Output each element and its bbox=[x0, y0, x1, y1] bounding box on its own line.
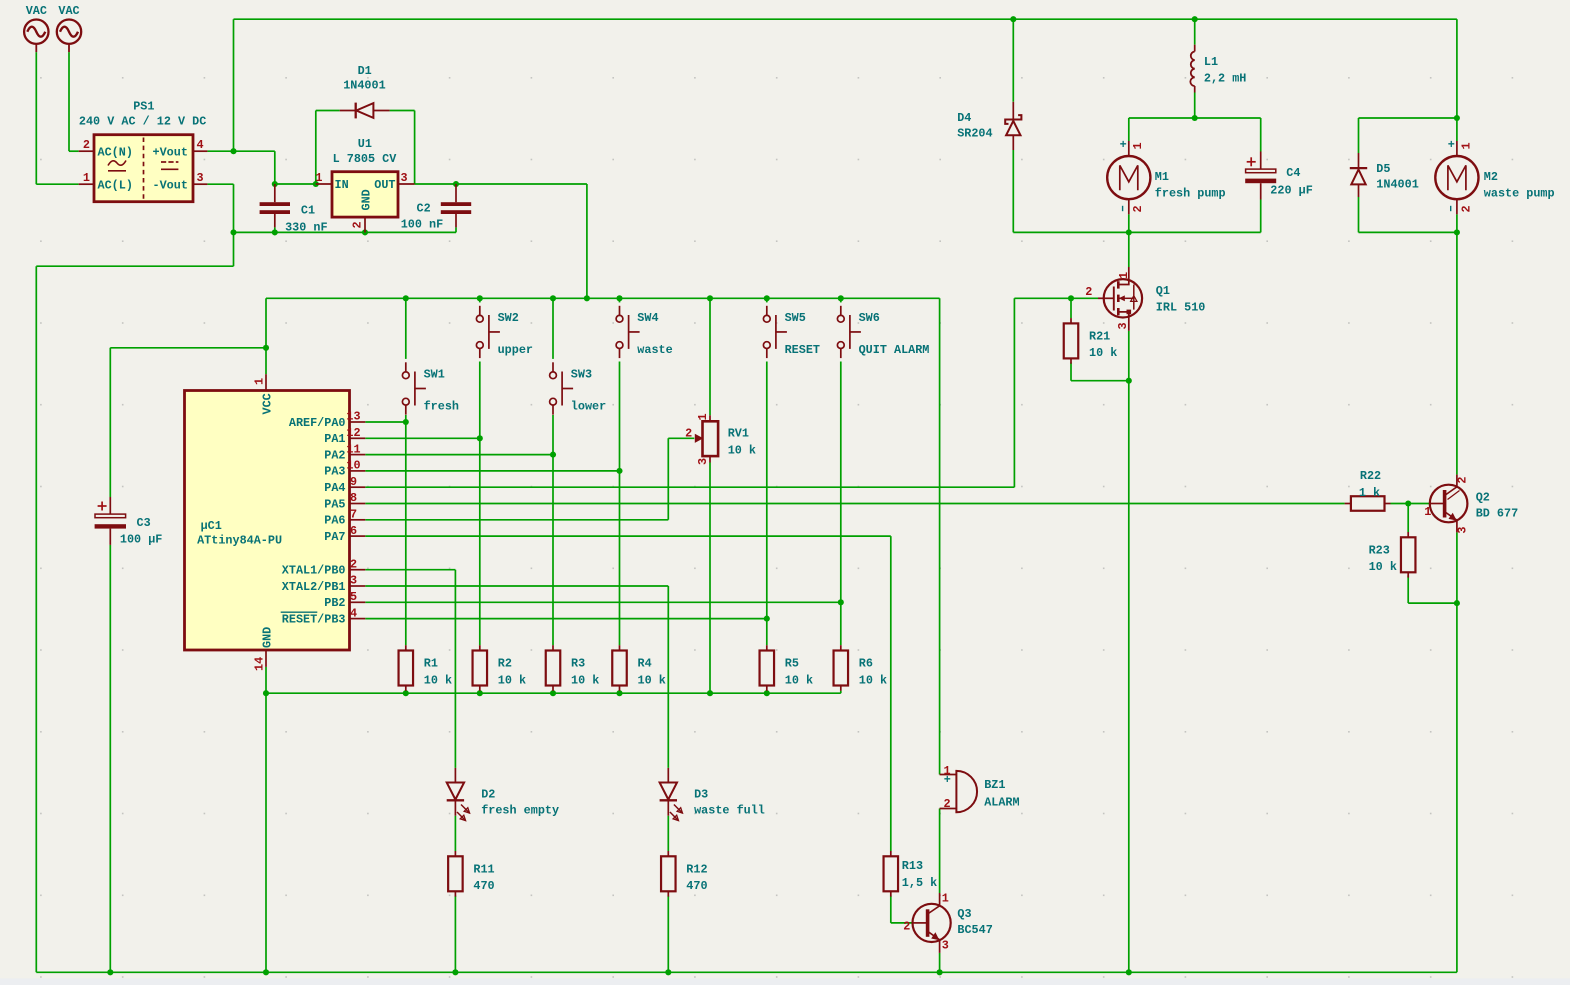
junction bottom Q3 bbox=[937, 969, 943, 975]
svg-text:220 µF: 220 µF bbox=[1270, 184, 1312, 198]
junction M2 top bbox=[1454, 115, 1460, 121]
wire Q3 emitter lead bbox=[939, 953, 941, 972]
svg-text:R21: R21 bbox=[1089, 329, 1110, 343]
wire PA6 row bbox=[365, 519, 668, 521]
junction gnd rail R2 bbox=[477, 690, 483, 696]
wire +12V riser to top rail bbox=[233, 19, 235, 151]
svg-text:100 µF: 100 µF bbox=[120, 533, 162, 547]
resistor R13 1.5k bbox=[884, 851, 938, 897]
junction VCC link bbox=[263, 345, 269, 351]
wire +12V drop to C1 bbox=[274, 151, 276, 184]
wire PA4 riser to Q1 gate bbox=[1013, 298, 1015, 487]
svg-text:fresh: fresh bbox=[424, 400, 459, 414]
junction bottom C3 bbox=[107, 969, 113, 975]
junction bottom R12 bbox=[665, 969, 671, 975]
wire bottom ground rail bbox=[36, 971, 1457, 973]
wire D5 top lead bbox=[1358, 118, 1360, 153]
svg-text:PS1: PS1 bbox=[133, 99, 154, 113]
svg-text:470: 470 bbox=[686, 879, 707, 893]
capacitor C2 100nF bbox=[401, 184, 471, 232]
svg-text:+: + bbox=[944, 773, 951, 787]
wire SW2 bottom lead bbox=[479, 362, 481, 439]
wire R23 to emitter link bbox=[1408, 602, 1457, 604]
wire R2 bottom lead bbox=[479, 691, 481, 694]
svg-text:M1: M1 bbox=[1155, 170, 1169, 184]
svg-text:3: 3 bbox=[942, 938, 949, 952]
svg-text:3: 3 bbox=[1116, 322, 1130, 329]
wire Q2 emitter lead bbox=[1456, 532, 1458, 972]
svg-text:4: 4 bbox=[197, 138, 204, 152]
junction Q2 base R22 bbox=[1405, 500, 1411, 506]
svg-text:QUIT ALARM: QUIT ALARM bbox=[859, 343, 930, 357]
wire PA7 drop to R13 bbox=[890, 536, 892, 851]
wire C4 bottom lead bbox=[1260, 200, 1262, 233]
wire VAC1 to PS1 AC(L) horizontal bbox=[36, 183, 78, 185]
wire ground drop left bbox=[233, 232, 235, 266]
svg-text:R1: R1 bbox=[424, 657, 438, 671]
wire SW5 to R5 bbox=[766, 619, 768, 646]
svg-text:VAC: VAC bbox=[26, 4, 47, 18]
svg-text:10 k: 10 k bbox=[638, 673, 666, 687]
svg-text:10 k: 10 k bbox=[424, 673, 452, 687]
wire PB1 row bbox=[365, 585, 668, 587]
wire M2 bottom lead bbox=[1456, 214, 1458, 232]
power supply PS1 240V AC to 12V DC bbox=[79, 99, 208, 201]
wire R12 bottom lead bbox=[667, 896, 669, 973]
junction bus SW5 bbox=[764, 295, 770, 301]
LED D2 fresh empty bbox=[447, 768, 559, 821]
svg-text:+Vout: +Vout bbox=[153, 146, 188, 160]
junction gnd rail RV1 bbox=[707, 690, 713, 696]
junction L1 M1 rail bbox=[1192, 115, 1198, 121]
svg-text:waste pump: waste pump bbox=[1484, 187, 1555, 201]
potentiometer RV1 10k bbox=[685, 413, 756, 465]
svg-text:OUT: OUT bbox=[374, 178, 395, 192]
junction gnd rail uC bbox=[263, 690, 269, 696]
wire SW3 top lead bbox=[552, 298, 554, 359]
svg-text:3: 3 bbox=[350, 574, 357, 588]
svg-text:C4: C4 bbox=[1286, 166, 1300, 180]
svg-text:AC(L): AC(L) bbox=[98, 179, 133, 193]
wire R3 bottom lead bbox=[552, 691, 554, 694]
svg-text:L 7805 CV: L 7805 CV bbox=[333, 152, 398, 166]
wire Q1 source lead bbox=[1128, 331, 1130, 973]
buzzer BZ1 ALARM bbox=[940, 764, 1020, 812]
wire RV1 bottom lead bbox=[709, 463, 711, 694]
wire R11 bottom lead bbox=[454, 896, 456, 973]
wire +12V from PS1 pin4 bbox=[207, 150, 274, 152]
junction bottom uC GND bbox=[263, 969, 269, 975]
wire C3 top lead bbox=[109, 348, 111, 497]
svg-text:1: 1 bbox=[1117, 272, 1131, 279]
wire VAC2 to PS1 AC(N) horizontal bbox=[69, 150, 79, 152]
svg-text:D4: D4 bbox=[957, 111, 971, 125]
svg-text:10 k: 10 k bbox=[785, 673, 813, 687]
resistor R4 10k bbox=[612, 645, 666, 691]
wire uC1 VCC drop bbox=[265, 348, 267, 374]
svg-text:SW3: SW3 bbox=[571, 367, 592, 381]
svg-text:U1: U1 bbox=[358, 137, 372, 151]
wire PB0 row bbox=[365, 569, 455, 571]
wire Q1 drain lead bbox=[1128, 232, 1130, 267]
svg-text:1: 1 bbox=[252, 378, 266, 385]
wire SW6 bottom lead bbox=[840, 362, 842, 603]
junction PA0 SW1 bbox=[403, 419, 409, 425]
svg-text:SW6: SW6 bbox=[859, 311, 880, 325]
junction PA1 SW2 bbox=[477, 435, 483, 441]
wire +5V drop to BZ1 bbox=[939, 298, 941, 774]
svg-text:BZ1: BZ1 bbox=[984, 778, 1005, 792]
motor M1 fresh pump bbox=[1107, 138, 1225, 214]
svg-text:10 k: 10 k bbox=[571, 673, 599, 687]
svg-text:3: 3 bbox=[197, 171, 204, 185]
svg-text:D1: D1 bbox=[358, 64, 372, 78]
svg-text:AC(N): AC(N) bbox=[98, 146, 133, 160]
svg-text:waste: waste bbox=[637, 343, 672, 357]
LED D3 waste full bbox=[660, 768, 765, 821]
junction PB2 SW6 bbox=[838, 599, 844, 605]
svg-text:13: 13 bbox=[346, 410, 360, 424]
capacitor C1 330nF bbox=[260, 184, 328, 235]
svg-text:2: 2 bbox=[83, 138, 90, 152]
svg-text:GND: GND bbox=[360, 189, 374, 210]
wire D1 left lead bbox=[316, 110, 340, 112]
svg-text:10 k: 10 k bbox=[859, 673, 887, 687]
svg-text:D2: D2 bbox=[481, 787, 495, 801]
svg-text:RESET/PB3: RESET/PB3 bbox=[282, 612, 346, 626]
wire PA6 riser to RV1 wiper bbox=[667, 438, 669, 520]
wire C1 C2 ground rail bbox=[234, 231, 457, 233]
junction C2 top bbox=[453, 181, 459, 187]
junction PA3 SW4 bbox=[616, 468, 622, 474]
svg-text:12: 12 bbox=[346, 426, 360, 440]
junction Q1 source R21 bbox=[1126, 378, 1132, 384]
svg-text:1: 1 bbox=[83, 171, 90, 185]
junction +12V pin4 bbox=[230, 148, 236, 154]
wire +5V bus to VCC link bbox=[265, 298, 267, 348]
wire SW6 top lead bbox=[840, 298, 842, 302]
wire R1 top lead bbox=[405, 422, 407, 645]
svg-text:VCC: VCC bbox=[261, 393, 275, 414]
wire PA7 row bbox=[365, 535, 891, 537]
resistor R21 10k bbox=[1064, 318, 1118, 364]
wire R21 top lead bbox=[1070, 298, 1072, 318]
svg-text:2: 2 bbox=[944, 797, 951, 811]
svg-text:GND: GND bbox=[261, 627, 275, 648]
svg-text:R11: R11 bbox=[473, 862, 494, 876]
junction bottom Q1 source bbox=[1126, 969, 1132, 975]
svg-text:ATtiny84A-PU: ATtiny84A-PU bbox=[197, 534, 282, 548]
wire M2 top rail bbox=[1359, 117, 1457, 119]
svg-text:1: 1 bbox=[1424, 505, 1431, 519]
svg-text:+: + bbox=[1120, 138, 1127, 152]
transistor Q2 BD677 darlington bbox=[1424, 475, 1518, 534]
svg-text:10: 10 bbox=[346, 459, 360, 473]
svg-text:3: 3 bbox=[696, 458, 710, 465]
junction M1 bottom bbox=[1126, 229, 1132, 235]
wire SW4 top lead bbox=[619, 298, 621, 302]
wire SW3 bottom lead bbox=[552, 415, 554, 455]
wire SW1 top lead bbox=[405, 298, 407, 359]
svg-text:PA4: PA4 bbox=[324, 481, 345, 495]
svg-text:1: 1 bbox=[1459, 142, 1473, 149]
svg-text:2: 2 bbox=[1455, 477, 1469, 484]
microcontroller uC1 ATtiny84A-PU bbox=[185, 374, 366, 671]
wire R23 bottom lead bbox=[1407, 575, 1409, 603]
svg-text:R13: R13 bbox=[902, 859, 923, 873]
svg-text:XTAL2/PB1: XTAL2/PB1 bbox=[282, 580, 346, 594]
svg-text:fresh empty: fresh empty bbox=[481, 804, 559, 818]
svg-text:1: 1 bbox=[1131, 142, 1145, 149]
svg-text:6: 6 bbox=[350, 524, 357, 538]
wire R4 bottom lead bbox=[619, 691, 621, 694]
wire PB1 drop to D3 bbox=[667, 586, 669, 768]
wire D4 bottom lead bbox=[1012, 150, 1014, 232]
svg-text:lower: lower bbox=[571, 400, 606, 414]
wire D4 top lead bbox=[1012, 19, 1014, 102]
svg-text:7: 7 bbox=[350, 508, 357, 522]
wire SW1 bottom lead bbox=[405, 415, 407, 422]
wire D3 to R12 bbox=[667, 816, 669, 851]
junction C1 bottom bbox=[272, 229, 278, 235]
wire SW5 top lead bbox=[766, 298, 768, 302]
svg-text:240 V AC / 12 V DC: 240 V AC / 12 V DC bbox=[79, 115, 206, 129]
svg-text:C2: C2 bbox=[417, 202, 431, 216]
wire PA0 row bbox=[365, 421, 406, 423]
svg-text:R6: R6 bbox=[859, 657, 873, 671]
svg-text:PB2: PB2 bbox=[324, 596, 345, 610]
svg-text:Q3: Q3 bbox=[957, 907, 971, 921]
svg-text:470: 470 bbox=[473, 879, 494, 893]
resistor R22 1k bbox=[1345, 469, 1391, 511]
wire U1 OUT to bus riser bbox=[415, 183, 587, 185]
transistor Q3 BC547 npn bbox=[903, 892, 993, 953]
svg-text:2: 2 bbox=[685, 426, 692, 440]
junction gnd pin3 bbox=[230, 229, 236, 235]
switch SW5 RESET bbox=[763, 306, 820, 358]
svg-text:Q1: Q1 bbox=[1156, 284, 1170, 298]
diode D5 1N4001 bbox=[1350, 153, 1419, 197]
junction bus SW1 bbox=[403, 295, 409, 301]
wire R21 to source link bbox=[1071, 380, 1129, 382]
resistor R12 470 bbox=[661, 851, 708, 897]
junction C1 top bbox=[272, 181, 278, 187]
wire Q1 gate wire bbox=[1014, 297, 1098, 299]
wire D1 right riser bbox=[414, 111, 416, 185]
wire C4 top lead bbox=[1260, 118, 1262, 152]
junction M2 bottom bbox=[1454, 229, 1460, 235]
svg-text:Q2: Q2 bbox=[1476, 491, 1490, 505]
wire SW6 to R6 bbox=[840, 602, 842, 645]
svg-text:RESET: RESET bbox=[785, 343, 820, 357]
wire C3 bottom lead bbox=[109, 545, 111, 972]
resistor R5 10k bbox=[760, 645, 814, 691]
wire M1 top rail bbox=[1129, 117, 1261, 119]
svg-text:SW4: SW4 bbox=[637, 311, 658, 325]
wire BZ1 to Q3 collector bbox=[939, 809, 941, 894]
wire R4 top lead bbox=[619, 471, 621, 645]
inductor L1 2.2mH bbox=[1190, 45, 1246, 93]
wire R13 to Q3 base vert bbox=[890, 896, 892, 923]
wire left ground drop bbox=[35, 266, 37, 972]
wire uC1 GND drop to bottom bbox=[265, 693, 267, 972]
wire D1 right lead bbox=[390, 110, 415, 112]
wire R2 top lead bbox=[479, 438, 481, 645]
svg-text:2: 2 bbox=[1131, 205, 1145, 212]
wire PA5 row to R22 bbox=[365, 503, 1344, 505]
wire +12V top rail bbox=[234, 18, 1457, 20]
page margin strip bbox=[0, 978, 1570, 985]
svg-text:9: 9 bbox=[350, 475, 357, 489]
wire R1 bottom lead bbox=[405, 691, 407, 694]
svg-text:2: 2 bbox=[1085, 285, 1092, 299]
wire D1 left riser bbox=[315, 111, 317, 185]
wire R21 bottom lead bbox=[1070, 363, 1072, 381]
junction bus SW3 bbox=[550, 295, 556, 301]
svg-text:waste full: waste full bbox=[694, 804, 765, 818]
wire VAC2 to PS1 AC(N) vertical bbox=[68, 52, 70, 151]
wire ground run left bbox=[36, 265, 233, 267]
svg-text:SW5: SW5 bbox=[785, 311, 806, 325]
wire R13 to Q3 base horiz bbox=[891, 922, 912, 924]
svg-text:1: 1 bbox=[315, 171, 322, 185]
resistor R1 10k bbox=[399, 645, 453, 691]
junction Q1 gate R21 bbox=[1068, 295, 1074, 301]
switch SW4 waste bbox=[616, 306, 673, 358]
wire +12V to U1 IN bbox=[275, 183, 316, 185]
wire SW5 bottom lead bbox=[766, 362, 768, 619]
svg-text:1,5 k: 1,5 k bbox=[902, 876, 937, 890]
junction D1 anode bbox=[313, 181, 319, 187]
wire D2 to R11 bbox=[454, 816, 456, 851]
svg-text:VAC: VAC bbox=[58, 4, 79, 18]
svg-text:fresh pump: fresh pump bbox=[1155, 187, 1226, 201]
svg-text:+: + bbox=[1448, 138, 1455, 152]
wire PA3 row bbox=[365, 470, 619, 472]
wire +5V riser bbox=[586, 184, 588, 298]
wire resistor ground rail bbox=[266, 692, 841, 694]
wire RV1 wiper lead bbox=[668, 437, 694, 439]
resistor R3 10k bbox=[546, 645, 600, 691]
resistor R6 10k bbox=[834, 645, 888, 691]
svg-text:RV1: RV1 bbox=[728, 427, 749, 441]
wire +5V link to uC1 VCC bbox=[110, 347, 266, 349]
wire Q2 collector lead bbox=[1456, 232, 1458, 474]
svg-text:R22: R22 bbox=[1360, 469, 1381, 483]
svg-text:2: 2 bbox=[1459, 205, 1473, 212]
junction PA2 SW3 bbox=[550, 452, 556, 458]
junction gnd rail R5 bbox=[764, 690, 770, 696]
svg-text:BD 677: BD 677 bbox=[1476, 507, 1518, 521]
wire PS1 pin3 lead bbox=[207, 183, 233, 185]
svg-text:11: 11 bbox=[346, 442, 360, 456]
junction gnd rail R1 bbox=[403, 690, 409, 696]
svg-text:2: 2 bbox=[350, 557, 357, 571]
svg-text:10 k: 10 k bbox=[1089, 346, 1117, 360]
capacitor C4 220uF polarized bbox=[1245, 152, 1313, 200]
svg-text:IRL 510: IRL 510 bbox=[1156, 301, 1206, 315]
svg-text:3: 3 bbox=[1455, 527, 1469, 534]
svg-text:2,2 mH: 2,2 mH bbox=[1204, 72, 1246, 86]
switch SW1 fresh bbox=[402, 362, 459, 414]
svg-text:SR204: SR204 bbox=[957, 127, 992, 141]
svg-text:C1: C1 bbox=[301, 204, 315, 218]
wire D5 bottom lead bbox=[1358, 197, 1360, 232]
svg-text:100 nF: 100 nF bbox=[401, 218, 443, 232]
capacitor C3 100uF polarized bbox=[95, 497, 163, 547]
svg-text:14: 14 bbox=[252, 657, 266, 671]
wire R5 bottom lead bbox=[766, 691, 768, 694]
svg-text:2: 2 bbox=[903, 920, 910, 934]
wire RV1 top lead bbox=[709, 298, 711, 415]
svg-text:10 k: 10 k bbox=[1369, 560, 1397, 574]
svg-text:1 k: 1 k bbox=[1359, 486, 1380, 500]
wire R22 to Q2 base bbox=[1391, 503, 1430, 505]
wire R23 top lead bbox=[1407, 504, 1409, 533]
svg-text:1: 1 bbox=[942, 892, 949, 906]
wire PB3 row bbox=[365, 618, 767, 620]
wire SW2 top lead bbox=[479, 298, 481, 302]
wire PB0 drop to D2 bbox=[454, 570, 456, 768]
svg-text:10 k: 10 k bbox=[498, 673, 526, 687]
svg-text:SW2: SW2 bbox=[498, 311, 519, 325]
svg-text:SW1: SW1 bbox=[424, 367, 445, 381]
svg-text:BC547: BC547 bbox=[957, 923, 992, 937]
svg-text:R2: R2 bbox=[498, 657, 512, 671]
svg-text:ALARM: ALARM bbox=[984, 795, 1019, 809]
svg-text:PA2: PA2 bbox=[324, 448, 345, 462]
svg-text:1N4001: 1N4001 bbox=[1376, 178, 1418, 192]
wire SW4 bottom lead bbox=[619, 362, 621, 471]
svg-text:R5: R5 bbox=[785, 657, 799, 671]
wire M1 bottom rail bbox=[1013, 231, 1260, 233]
svg-text:PA3: PA3 bbox=[324, 465, 345, 479]
svg-text:L1: L1 bbox=[1204, 55, 1218, 69]
wire PA2 row bbox=[365, 454, 553, 456]
wire L1 bottom lead bbox=[1194, 93, 1196, 119]
svg-text:5: 5 bbox=[350, 590, 357, 604]
svg-text:1: 1 bbox=[696, 413, 710, 420]
svg-text:C3: C3 bbox=[137, 516, 151, 530]
svg-text:XTAL1/PB0: XTAL1/PB0 bbox=[282, 564, 346, 578]
junction gnd rail R4 bbox=[616, 690, 622, 696]
svg-text:10 k: 10 k bbox=[728, 444, 756, 458]
svg-text:D5: D5 bbox=[1376, 162, 1390, 176]
svg-text:PA5: PA5 bbox=[324, 497, 345, 511]
wire right riser bbox=[1456, 19, 1458, 118]
junction bus SW2 bbox=[477, 295, 483, 301]
svg-text:µC1: µC1 bbox=[201, 519, 222, 533]
svg-text:3: 3 bbox=[401, 171, 408, 185]
wire R6 bottom lead bbox=[840, 691, 842, 694]
junction PB3 SW5 bbox=[764, 616, 770, 622]
junction bus OUT feed bbox=[584, 295, 590, 301]
wire M2 bottom rail bbox=[1359, 231, 1457, 233]
svg-text:upper: upper bbox=[498, 343, 533, 357]
resistor R2 10k bbox=[473, 645, 527, 691]
motor M2 waste pump bbox=[1435, 138, 1554, 214]
svg-text:8: 8 bbox=[350, 491, 357, 505]
svg-text:D3: D3 bbox=[694, 787, 708, 801]
svg-text:R23: R23 bbox=[1369, 543, 1390, 557]
wire M2 top lead bbox=[1456, 118, 1458, 141]
switch SW3 lower bbox=[550, 362, 607, 414]
junction top rail D4 bbox=[1010, 16, 1016, 22]
svg-text:2: 2 bbox=[351, 221, 365, 228]
wire R3 top lead bbox=[552, 455, 554, 646]
svg-text:IN: IN bbox=[335, 178, 349, 192]
wire PA4 row bbox=[365, 486, 1014, 488]
